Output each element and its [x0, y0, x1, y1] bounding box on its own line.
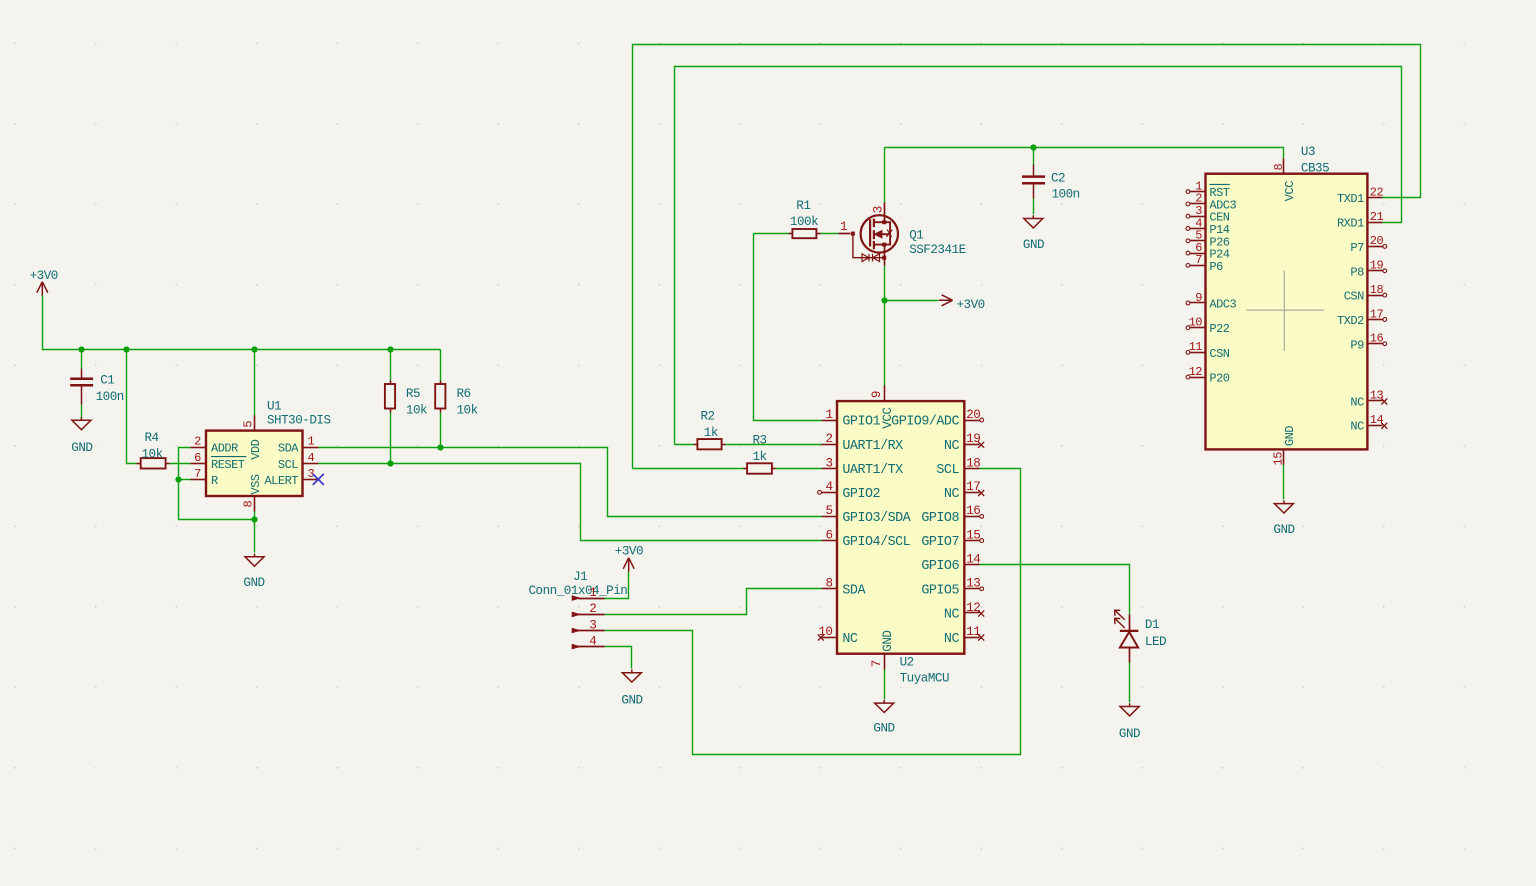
- resistor R1 100k: [754, 199, 839, 238]
- svg-text:GPIO1: GPIO1: [842, 415, 880, 430]
- svg-text:GPIO4/SCL: GPIO4/SCL: [842, 535, 910, 550]
- svg-text:R: R: [211, 474, 218, 488]
- svg-text:+3V0: +3V0: [957, 298, 985, 312]
- junction below U1 VSS: [251, 516, 257, 522]
- svg-text:P6: P6: [1209, 260, 1223, 274]
- U1 pin 1 SDA: [278, 435, 319, 456]
- svg-text:8: 8: [242, 501, 256, 508]
- U1 pin 2 ADDR: [191, 435, 239, 456]
- U1 pin 8 VSS: [242, 474, 263, 511]
- svg-text:P20: P20: [1209, 372, 1229, 386]
- svg-text:TXD2: TXD2: [1337, 314, 1364, 328]
- svg-text:NC: NC: [944, 632, 960, 647]
- U3 pin 10 P22: [1186, 316, 1230, 337]
- svg-text:R4: R4: [145, 431, 159, 445]
- U2 pin 18 SCL: [936, 456, 980, 478]
- svg-text:CSN: CSN: [1209, 347, 1229, 361]
- wire R4 to U1 RESET: [170, 463, 191, 465]
- U2 pin 17 NC: [944, 480, 980, 502]
- U2 pin 20 GPIO9/ADC: [891, 408, 980, 430]
- U2 pin 2 UART1/RX: [822, 432, 904, 454]
- wire J1 pin1 to +3V0: [605, 572, 629, 599]
- svg-text:20: 20: [1370, 234, 1384, 248]
- svg-text:P9: P9: [1350, 338, 1364, 352]
- wire U3 GND pin down: [1283, 465, 1285, 500]
- svg-text:21: 21: [1370, 210, 1384, 224]
- U3 pin 8 VCC: [1272, 159, 1297, 202]
- wire Q1 source down to U2 VCC: [884, 266, 886, 386]
- U3 pin 12 P20: [1186, 365, 1230, 386]
- svg-text:GPIO2: GPIO2: [842, 487, 880, 502]
- U2 pin 9 VCC: [870, 386, 895, 429]
- svg-text:VCC: VCC: [881, 407, 895, 429]
- svg-text:GND: GND: [1119, 727, 1140, 741]
- ground GND (U2): [873, 700, 894, 736]
- svg-text:GND: GND: [881, 631, 895, 652]
- U3 pin 6 P24: [1186, 241, 1230, 262]
- svg-text:GND: GND: [873, 722, 894, 736]
- wire rail to R4: [127, 350, 137, 464]
- U3 pin 18 CSN: [1344, 283, 1387, 304]
- wire to pin R: [179, 479, 191, 481]
- svg-text:GPIO8: GPIO8: [921, 511, 959, 526]
- IC U3 CB35 body: [1206, 174, 1368, 450]
- svg-text:GPIO9/ADC: GPIO9/ADC: [891, 415, 959, 430]
- U1 pin 5 VDD: [242, 416, 263, 460]
- U3 pin 19 P8: [1350, 259, 1386, 280]
- svg-text:2: 2: [825, 432, 832, 446]
- svg-text:18: 18: [1370, 283, 1384, 297]
- svg-text:VSS: VSS: [249, 474, 263, 494]
- U3 pin 5 P26: [1186, 229, 1230, 250]
- svg-text:Conn_01x04_Pin: Conn_01x04_Pin: [529, 584, 628, 598]
- wire +3V0 rail left: [43, 296, 441, 350]
- svg-text:1: 1: [840, 220, 847, 234]
- svg-text:R1: R1: [796, 199, 810, 213]
- svg-text:GND: GND: [1283, 426, 1297, 446]
- wire U2 GPIO6 to LED: [980, 565, 1130, 615]
- svg-text:11: 11: [966, 625, 980, 639]
- U1 pin 7 R: [191, 467, 219, 488]
- svg-text:GND: GND: [243, 576, 264, 590]
- U3 pin 17 TXD2: [1337, 307, 1387, 328]
- U2 pin 6 GPIO4/SCL: [822, 528, 911, 550]
- svg-text:15: 15: [966, 528, 980, 542]
- svg-text:10k: 10k: [406, 403, 427, 417]
- svg-text:1: 1: [307, 435, 314, 449]
- U3 pin 22 TXD1: [1337, 186, 1384, 207]
- junction R5 bottom on SCL: [387, 460, 393, 466]
- U2 pin 15 GPIO7: [921, 528, 980, 550]
- U2 pin 11 NC: [944, 625, 980, 647]
- svg-text:NC: NC: [842, 632, 858, 647]
- svg-text:UART1/RX: UART1/RX: [842, 439, 903, 454]
- wire LED to GND: [1129, 663, 1131, 703]
- svg-text:GPIO6: GPIO6: [921, 559, 959, 574]
- svg-text:NC: NC: [944, 487, 960, 502]
- svg-text:2: 2: [194, 435, 201, 449]
- wire to +3V0 arrow: [885, 300, 939, 302]
- LED D1: [1115, 610, 1166, 662]
- resistor R3 1k: [633, 434, 822, 474]
- svg-text:7: 7: [1195, 253, 1202, 267]
- svg-text:NC: NC: [944, 608, 960, 623]
- svg-text:SCL: SCL: [936, 463, 959, 478]
- U3 pin 14 NC: [1350, 413, 1387, 434]
- wire C1 top lead: [81, 350, 83, 369]
- U2 pin 3 UART1/TX: [822, 456, 904, 478]
- U3 pin 16 P9: [1350, 332, 1386, 353]
- svg-text:NC: NC: [944, 439, 960, 454]
- ground GND (C2): [1023, 215, 1044, 252]
- svg-text:3: 3: [589, 618, 596, 632]
- junction at R5 top: [387, 346, 393, 352]
- svg-text:SDA: SDA: [842, 583, 866, 598]
- junction R6 bottom on SDA: [437, 444, 443, 450]
- svg-text:TuyaMCU: TuyaMCU: [900, 671, 949, 685]
- svg-text:22: 22: [1370, 186, 1384, 200]
- U2 pin 4 GPIO2: [822, 480, 881, 502]
- svg-text:4: 4: [307, 451, 314, 465]
- svg-text:LED: LED: [1145, 635, 1166, 649]
- svg-text:4: 4: [589, 634, 596, 648]
- U3 pin 7 P6: [1186, 253, 1223, 274]
- svg-text:VCC: VCC: [1283, 181, 1297, 201]
- svg-text:100k: 100k: [790, 215, 818, 229]
- ground GND (J1): [621, 670, 642, 708]
- svg-text:R3: R3: [753, 434, 767, 448]
- resistor R5 10k: [385, 350, 427, 464]
- svg-text:J1: J1: [573, 570, 587, 584]
- power symbol +3V0 (left): [30, 269, 58, 296]
- svg-text:+3V0: +3V0: [615, 545, 643, 559]
- svg-text:R6: R6: [457, 387, 471, 401]
- resistor R6 10k: [435, 350, 477, 448]
- U2 pin 5 GPIO3/SDA: [822, 504, 912, 526]
- svg-text:SCL: SCL: [278, 458, 298, 472]
- U2 pin 14 GPIO6: [921, 552, 980, 574]
- U1 pin 4 SCL: [278, 451, 319, 472]
- svg-text:C1: C1: [100, 373, 114, 387]
- U2 no-connect x marks: [818, 635, 824, 641]
- svg-text:5: 5: [242, 421, 256, 428]
- svg-text:100n: 100n: [1052, 188, 1080, 202]
- wire J1 pin2 to U2 SDA: [605, 589, 822, 615]
- junction at C1 top: [78, 346, 84, 352]
- svg-text:Q1: Q1: [909, 228, 923, 242]
- U3 pin 1 RST: [1186, 179, 1230, 200]
- svg-text:10k: 10k: [142, 447, 163, 461]
- wire VCC rail to U3 pin8: [885, 148, 1284, 159]
- svg-text:ADDR: ADDR: [211, 442, 238, 456]
- IC U2 TuyaMCU body: [837, 401, 964, 654]
- svg-text:GND: GND: [1273, 523, 1294, 537]
- svg-text:R2: R2: [701, 410, 715, 424]
- U3 pin 15 GND: [1272, 426, 1297, 466]
- svg-text:6: 6: [825, 528, 832, 542]
- wire U2 GND pin down: [884, 670, 886, 700]
- svg-text:14: 14: [966, 552, 980, 566]
- svg-text:U1: U1: [267, 400, 281, 414]
- U2 pin 13 GPIO5: [921, 577, 980, 599]
- svg-text:16: 16: [966, 504, 980, 518]
- U3 pin 2 ADC3: [1186, 192, 1236, 213]
- U3 pin 11 CSN: [1186, 340, 1230, 361]
- ground GND (U3): [1273, 500, 1294, 537]
- svg-text:1: 1: [825, 408, 832, 422]
- wire TX net (U3 TXD1 to R3): [633, 45, 1421, 469]
- svg-text:C2: C2: [1051, 172, 1065, 186]
- U3 pin 9 ADC3: [1186, 291, 1236, 312]
- capacitor C1: [70, 369, 124, 405]
- U2 pin 1 GPIO1: [822, 408, 881, 430]
- power symbol +3V0 (J1): [615, 545, 643, 572]
- svg-text:P7: P7: [1350, 241, 1364, 255]
- wire U1 VSS down: [254, 512, 256, 553]
- U2 pin 16 GPIO8: [921, 504, 980, 526]
- svg-text:RESET: RESET: [211, 458, 245, 472]
- junction C2 top: [1030, 144, 1036, 150]
- svg-text:R5: R5: [406, 387, 420, 401]
- svg-text:20: 20: [966, 408, 980, 422]
- svg-text:SHT30-DIS: SHT30-DIS: [267, 413, 331, 427]
- connector J1 Conn_01x04_Pin: [529, 570, 628, 598]
- svg-text:10k: 10k: [457, 403, 478, 417]
- svg-text:7: 7: [194, 467, 201, 481]
- svg-text:ALERT: ALERT: [264, 474, 298, 488]
- wire C1 bottom lead: [81, 405, 83, 418]
- U1 pin 6 RESET: [191, 451, 247, 472]
- svg-text:4: 4: [825, 480, 832, 494]
- U3 pin 3 CEN: [1186, 204, 1230, 225]
- svg-text:2: 2: [589, 602, 596, 616]
- svg-text:TXD1: TXD1: [1337, 192, 1364, 206]
- svg-text:19: 19: [1370, 259, 1384, 273]
- wire RX net (U3 RXD1 to R2): [675, 67, 1402, 445]
- svg-text:9: 9: [1195, 291, 1202, 305]
- U2 pin 19 NC: [944, 432, 980, 454]
- svg-text:GND: GND: [1023, 238, 1044, 252]
- svg-text:15: 15: [1272, 452, 1286, 466]
- svg-text:3: 3: [872, 206, 886, 213]
- junction at U1 VDD column: [251, 346, 257, 352]
- svg-text:12: 12: [966, 601, 980, 615]
- svg-text:19: 19: [966, 432, 980, 446]
- U2 pin 10 NC: [818, 625, 858, 647]
- junction +3V0 tap: [881, 297, 887, 303]
- ground GND (U1): [243, 554, 264, 590]
- svg-text:CSN: CSN: [1344, 290, 1364, 304]
- svg-text:NC: NC: [1350, 395, 1364, 409]
- svg-text:ADC3: ADC3: [1209, 298, 1236, 312]
- svg-text:10: 10: [1189, 316, 1203, 330]
- resistor R2 1k: [675, 410, 822, 450]
- svg-text:11: 11: [1189, 340, 1203, 354]
- svg-text:GND: GND: [71, 441, 92, 455]
- wire U1 VDD to rail: [254, 350, 256, 416]
- svg-text:13: 13: [966, 577, 980, 591]
- J1 pin 3: [572, 618, 605, 633]
- svg-text:1k: 1k: [704, 426, 718, 440]
- svg-text:VDD: VDD: [249, 439, 263, 459]
- svg-text:16: 16: [1370, 332, 1384, 346]
- svg-text:+3V0: +3V0: [30, 269, 58, 283]
- svg-text:D1: D1: [1145, 618, 1159, 632]
- junction at R4 column: [123, 346, 129, 352]
- transistor Q1 SSF2341E: [839, 203, 966, 266]
- J1 pin 1: [572, 586, 605, 601]
- svg-text:CB35: CB35: [1301, 162, 1329, 176]
- U3 symbol cross graphic: [1247, 271, 1325, 351]
- U2 pin 8 SDA: [822, 577, 867, 599]
- J1 pin 4: [572, 634, 605, 649]
- svg-text:P8: P8: [1350, 265, 1364, 279]
- svg-text:RXD1: RXD1: [1337, 217, 1364, 231]
- wire GPIO1 to R1/Q1 gate column: [754, 234, 822, 421]
- no-connect flag on ALERT: [313, 474, 324, 485]
- U3 pin 13 NC: [1350, 389, 1387, 410]
- capacitor C2: [1022, 148, 1080, 215]
- svg-text:8: 8: [1272, 164, 1286, 171]
- svg-text:9: 9: [870, 391, 884, 398]
- resistor R4 10k: [137, 431, 170, 469]
- svg-text:NC: NC: [1350, 420, 1364, 434]
- svg-text:13: 13: [1370, 389, 1384, 403]
- svg-text:17: 17: [966, 480, 980, 494]
- svg-text:GPIO7: GPIO7: [921, 535, 959, 550]
- svg-text:6: 6: [194, 451, 201, 465]
- svg-text:12: 12: [1189, 365, 1203, 379]
- power symbol +3V0 (Q1 source): [939, 295, 985, 312]
- svg-text:SDA: SDA: [278, 442, 299, 456]
- svg-text:7: 7: [870, 660, 884, 667]
- wire Q1 drain to VCC rail: [884, 148, 886, 203]
- wire J1 pin4 to GND: [605, 647, 632, 669]
- svg-text:U2: U2: [900, 656, 914, 670]
- svg-text:U3: U3: [1301, 145, 1315, 159]
- U3 pin 4 P14: [1186, 216, 1230, 237]
- ground GND (D1): [1119, 703, 1140, 741]
- J1 pin 2: [572, 602, 605, 617]
- svg-text:18: 18: [966, 456, 980, 470]
- U3 pin 20 P7: [1350, 234, 1386, 255]
- U2 pin 7 GND: [870, 631, 895, 670]
- svg-text:1k: 1k: [753, 450, 767, 464]
- wire SCL net U1 to U2: [319, 464, 822, 541]
- IC U1 SHT30-DIS body: [206, 431, 303, 496]
- wire J1 pin3 to U2 SCL: [605, 469, 1021, 755]
- U1 pin 3 ALERT: [264, 467, 318, 488]
- svg-text:1: 1: [589, 586, 596, 600]
- wire U1 ADDR / R / VSS gnd net: [179, 448, 255, 520]
- svg-text:14: 14: [1370, 413, 1384, 427]
- svg-text:8: 8: [825, 577, 832, 591]
- ground GND (C1): [71, 417, 92, 455]
- svg-text:5: 5: [825, 504, 832, 518]
- svg-text:GPIO5: GPIO5: [921, 583, 959, 598]
- svg-text:SSF2341E: SSF2341E: [909, 243, 965, 257]
- svg-text:GND: GND: [621, 694, 642, 708]
- svg-text:UART1/TX: UART1/TX: [842, 463, 903, 478]
- svg-text:3: 3: [825, 456, 832, 470]
- U3 pin 21 RXD1: [1337, 210, 1384, 231]
- wire SDA net U1 to U2: [319, 448, 822, 517]
- svg-text:P22: P22: [1209, 322, 1229, 336]
- U2 pin 12 NC: [944, 601, 980, 623]
- svg-text:100n: 100n: [96, 390, 124, 404]
- svg-text:GPIO3/SDA: GPIO3/SDA: [842, 511, 911, 526]
- junction at R pin: [175, 476, 181, 482]
- svg-text:17: 17: [1370, 307, 1384, 321]
- U2 unconnected pin circles: [818, 491, 822, 495]
